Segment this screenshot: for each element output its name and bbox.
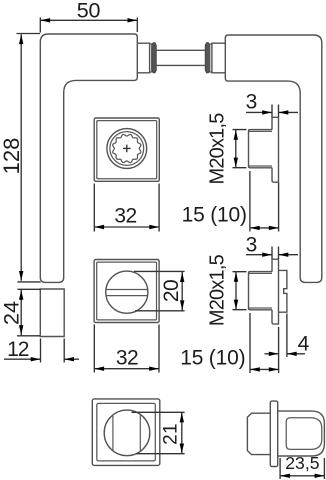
- rosette 2 inner square: [97, 262, 157, 320]
- profile 2 flange strip: [272, 259, 279, 324]
- dim 24 line: [20, 290, 22, 336]
- dim 20 ext lines: [134, 271, 185, 310]
- rosette 3 inner square: [97, 403, 156, 461]
- dim 23,5 ext lines: [280, 458, 324, 479]
- svg-text:128: 128: [0, 138, 24, 175]
- svg-text:21: 21: [161, 423, 182, 445]
- dim 12 lines with outside arrows: [4, 358, 79, 360]
- dim 128 line: [20, 34, 22, 280]
- dim 50 extension lines: [40, 18, 137, 33]
- rosette 3 outer square: [92, 399, 160, 466]
- svg-text:4: 4: [298, 332, 310, 355]
- right collar ring (light band): [210, 44, 212, 72]
- dim M20 p2 ticks: [233, 272, 247, 310]
- svg-text:20: 20: [160, 280, 183, 302]
- left handle L-shaped outline: [40, 34, 137, 282]
- profile 3 flange plate: [270, 401, 277, 466]
- svg-text:15 (10): 15 (10): [182, 203, 247, 226]
- svg-text:32: 32: [116, 347, 138, 370]
- rosette 1 gear hole (12 lobes): [113, 134, 141, 162]
- left collar (dark): [152, 43, 157, 73]
- dim M20 p1 line: [235, 130, 237, 168]
- rosette 2 circle: [106, 271, 148, 313]
- right collar (dark): [205, 43, 210, 73]
- rosette 1 middle circle: [110, 132, 144, 166]
- svg-text:3: 3: [246, 90, 258, 113]
- svg-text:15 (10): 15 (10): [180, 346, 245, 369]
- svg-text:M20x1,5: M20x1,5: [207, 254, 229, 326]
- dim 23,5 line: [280, 475, 324, 477]
- dim 4 outside arrows: [265, 353, 306, 355]
- dim 128 arrows: [19, 34, 23, 44]
- dim 3 p2 ext lines: [272, 247, 279, 260]
- dim 15(10) p1 line: [250, 227, 279, 229]
- svg-text:12: 12: [7, 338, 29, 361]
- dim 32 row2 line: [94, 368, 159, 370]
- profile 2 bottom tab: [272, 310, 279, 324]
- dim 32 row1 extension lines: [94, 184, 159, 232]
- rosette 3 knob lines: [113, 414, 140, 451]
- dim 128 extension lines: [17, 34, 41, 282]
- dim 15(10) p1 ext lines: [250, 171, 279, 232]
- svg-text:23,5: 23,5: [285, 453, 319, 473]
- right handle neck: [212, 43, 225, 73]
- spindle: [156, 50, 205, 65]
- rosette 2 slot lines: [106, 290, 148, 296]
- dim 20 line: [181, 272, 183, 310]
- rosette 2 outer square: [94, 260, 159, 323]
- right handle L-shaped outline: [225, 35, 321, 282]
- profile 2 threaded neck: [249, 272, 273, 310]
- profile 3 cap inner face: [286, 418, 322, 450]
- profile 3 neck: [247, 413, 270, 454]
- rosette 3 circle: [104, 410, 150, 456]
- dim 50 line: [40, 19, 137, 21]
- dim 21 ext lines: [132, 412, 185, 453]
- profile 1 bottom tab: [272, 168, 279, 183]
- svg-text:32: 32: [114, 204, 136, 227]
- profile 1 flange strip: [272, 117, 279, 183]
- profile 3 cap: [278, 411, 325, 456]
- dim 50 arrows: [40, 18, 50, 22]
- lower grip section rectangle: [40, 289, 64, 337]
- profile 1 threaded neck: [249, 130, 273, 168]
- rosette 1 outer square: [94, 118, 159, 181]
- dim 4 ext line: [286, 314, 288, 358]
- left handle neck: [137, 43, 149, 73]
- dim 3 p1 ext lines: [272, 105, 279, 118]
- dim 32 row1 line: [94, 226, 159, 228]
- rosette 1 inner square: [97, 121, 157, 179]
- svg-text:24: 24: [0, 301, 23, 325]
- dim 21 line: [181, 412, 183, 453]
- dim 24 arrows: [19, 290, 23, 300]
- profile 2 clip: [279, 270, 287, 312]
- rosette 1 center cross: [123, 145, 131, 153]
- dim M20 p2 line: [235, 272, 237, 310]
- dim 12 extension lines: [41, 339, 65, 363]
- svg-text:3: 3: [246, 233, 258, 256]
- svg-text:M20x1,5: M20x1,5: [207, 113, 229, 185]
- dim 24 extension lines: [17, 289, 41, 336]
- dim 32 row2 ext lines: [94, 325, 159, 373]
- dim M20 p1 ticks: [233, 130, 247, 168]
- dim 15(10) p2 line: [250, 368, 279, 370]
- left collar ring (light band): [150, 44, 152, 72]
- dim 3 p1 outside arrows: [246, 111, 298, 113]
- rosette 1 outer circle: [107, 129, 147, 169]
- svg-text:50: 50: [77, 0, 101, 22]
- dim 3 p2 outside arrows: [246, 254, 298, 256]
- dim 15(10) p2 ext lines: [250, 313, 279, 373]
